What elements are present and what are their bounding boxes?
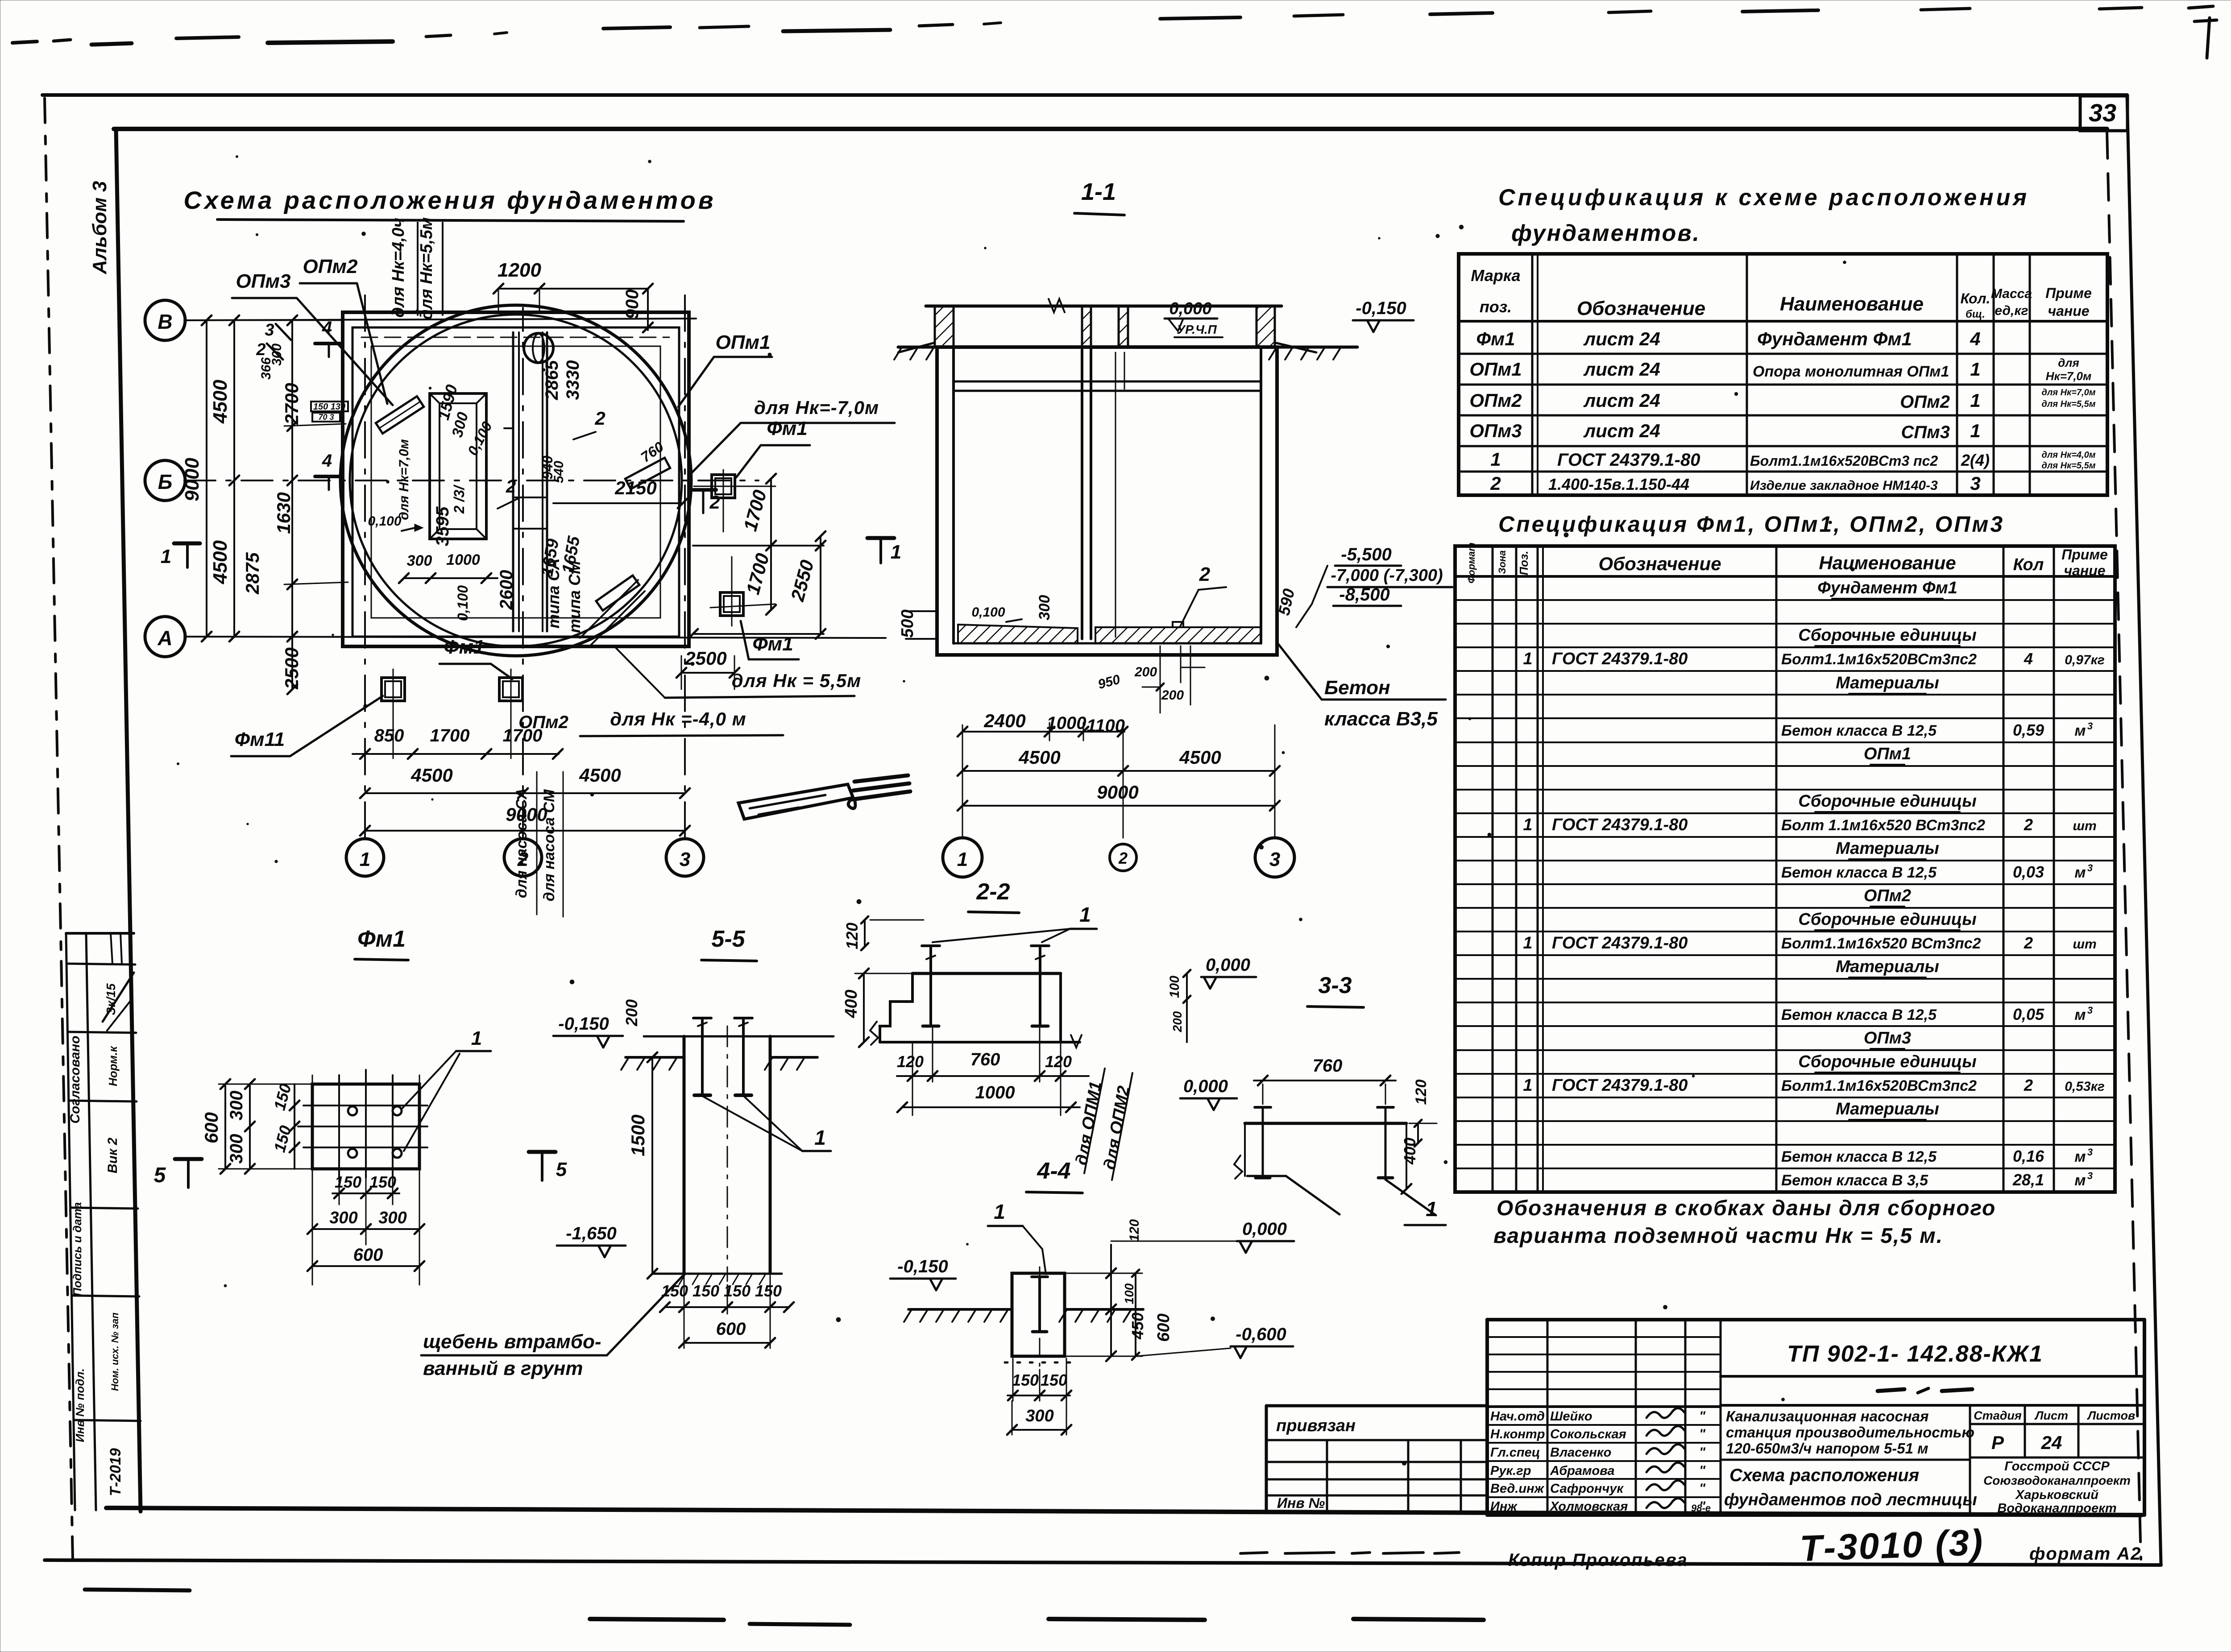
svg-text:Инж: Инж — [1490, 1499, 1518, 1514]
svg-text:ОПм3: ОПм3 — [1469, 420, 1522, 441]
svg-text:Б: Б — [158, 470, 173, 493]
svg-text:щебень втрамбо-: щебень втрамбо- — [423, 1331, 601, 1353]
svg-text:2875: 2875 — [242, 552, 263, 595]
section 1-1 axis bubble 1 — [943, 838, 982, 877]
svg-text:ГОСТ 24379.1-80: ГОСТ 24379.1-80 — [1552, 934, 1688, 952]
svg-text:для Нк =-4,0 м: для Нк =-4,0 м — [610, 708, 746, 729]
spec table 2 row grid lines — [1455, 599, 2115, 601]
svg-text:4: 4 — [322, 318, 332, 338]
section 1-1 sump notch — [1173, 622, 1183, 627]
svg-text:ОПм1: ОПм1 — [1469, 359, 1522, 380]
plan tank outer circle — [340, 305, 691, 656]
svg-text:А: А — [157, 626, 172, 650]
svg-text:": " — [1699, 1445, 1706, 1460]
detail 2-2 right edge — [1059, 973, 1062, 1042]
svg-text:типа СА: типа СА — [544, 558, 563, 628]
detail 4-4 bottom dims 150/150 — [1008, 1395, 1070, 1396]
spec table 1 vertical lines — [1531, 254, 1534, 495]
svg-text:-0,150: -0,150 — [1356, 298, 1406, 318]
top right corner tick mark — [2207, 18, 2210, 58]
section 1-1 wall stub hatched left — [935, 306, 954, 347]
title block stage columns verticals — [1969, 1405, 1971, 1515]
svg-text:Фм1: Фм1 — [357, 926, 406, 952]
svg-text:300: 300 — [1025, 1407, 1053, 1425]
svg-text:станция производительностью: станция производительностью — [1726, 1424, 1974, 1441]
title block upper empty row lines — [1487, 1336, 1721, 1338]
svg-text:0,05: 0,05 — [2013, 1005, 2044, 1023]
axis line Б — [184, 480, 759, 481]
svg-text:типа СМ: типа СМ — [565, 560, 584, 633]
svg-text:0,100: 0,100 — [971, 605, 1005, 620]
svg-text:1000: 1000 — [446, 551, 480, 568]
svg-text:4500: 4500 — [1018, 747, 1060, 768]
svg-text:м: м — [2074, 864, 2086, 881]
sidebar column divider — [86, 933, 96, 1510]
svg-text:3: 3 — [680, 849, 690, 870]
svg-text:1: 1 — [161, 546, 171, 567]
title block outer left edge — [1485, 1320, 1489, 1515]
plan central opening inner rect — [440, 403, 477, 529]
svg-text:ОПм1: ОПм1 — [716, 331, 771, 353]
svg-text:3: 3 — [265, 321, 274, 340]
section 1-1 ground hatch left — [894, 348, 901, 360]
svg-text:УР.Ч.П: УР.Ч.П — [1177, 323, 1217, 336]
detail 5-5 bolt cross ticks — [698, 1023, 707, 1026]
right dim chain footings 1700/1700/2550 — [693, 545, 824, 547]
svg-text:120: 120 — [1127, 1219, 1142, 1242]
svg-text:400: 400 — [1401, 1138, 1419, 1165]
svg-text:0,000: 0,000 — [1206, 955, 1250, 975]
svg-text:Материалы: Материалы — [1836, 674, 1939, 692]
sheet outer border bottom — [45, 1560, 2161, 1565]
svg-text:ГОСТ 24379.1-80: ГОСТ 24379.1-80 — [1552, 816, 1688, 834]
sidebar top line — [66, 932, 134, 935]
svg-text:лист 24: лист 24 — [1583, 359, 1660, 380]
inner frame bottom — [106, 1508, 2142, 1515]
svg-text:ванный в грунт: ванный в грунт — [423, 1358, 583, 1379]
svg-text:2: 2 — [1118, 849, 1128, 867]
svg-text:5: 5 — [154, 1163, 166, 1187]
axis line В — [184, 319, 696, 320]
svg-text:бщ.: бщ. — [1966, 308, 1985, 320]
speckle dash row above bottom border — [1240, 1553, 1267, 1553]
svg-text:600: 600 — [716, 1319, 746, 1339]
svg-text:4: 4 — [1970, 328, 1980, 349]
svg-text:200: 200 — [1170, 1011, 1184, 1032]
detail 2-2 left break squiggle — [870, 1022, 878, 1045]
svg-text:для Нк=5,5м: для Нк=5,5м — [2042, 399, 2096, 409]
svg-text:9000: 9000 — [506, 804, 547, 825]
svg-text:33: 33 — [2089, 99, 2116, 127]
svg-text:3: 3 — [2087, 720, 2093, 732]
svg-text:24: 24 — [2041, 1432, 2062, 1453]
svg-text:100: 100 — [1167, 976, 1182, 998]
svg-text:Фундамент Фм1: Фундамент Фм1 — [1757, 328, 1912, 349]
svg-text:Спецификация Фм1, ОПм1, ОПм2,: Спецификация Фм1, ОПм1, ОПм2, ОПм3 — [1498, 512, 2004, 537]
svg-text:4-4: 4-4 — [1037, 1158, 1070, 1184]
inner frame top — [114, 127, 2107, 131]
detail 4-4 ground line right with hatch — [1065, 1308, 1143, 1311]
right dim bottom line — [693, 633, 824, 635]
svg-text:2865: 2865 — [542, 360, 562, 401]
section 1-1 floor hatched left chamber — [958, 625, 1078, 643]
plan interior top dashed band — [361, 337, 669, 338]
svg-text:1: 1 — [1970, 390, 1980, 411]
svg-text:для Нк=4,0м: для Нк=4,0м — [2042, 450, 2096, 460]
svg-text:": " — [1699, 1427, 1706, 1441]
svg-text:1: 1 — [1490, 449, 1501, 470]
spec table 2 outer box — [1455, 546, 2115, 1192]
svg-text:-0,150: -0,150 — [897, 1257, 948, 1276]
svg-text:В: В — [158, 310, 172, 333]
svg-text:Сборочные единицы: Сборочные единицы — [1798, 910, 1976, 929]
detail Фм1 left dim 600 — [224, 1084, 226, 1169]
detail Фм1 anchor bolt circles — [348, 1106, 357, 1115]
svg-text:0,59: 0,59 — [2013, 721, 2044, 739]
detail Фм1 extension lines — [312, 1075, 313, 1285]
section 1-1 extension verticals to bubbles — [962, 725, 963, 838]
svg-text:Альбом 3: Альбом 3 — [89, 181, 111, 275]
svg-text:Вед.инж: Вед.инж — [1490, 1482, 1545, 1496]
svg-text:0,97кг: 0,97кг — [2065, 653, 2105, 667]
spec table 1 outer box — [1459, 254, 2107, 495]
plan central opening outer rect — [430, 393, 486, 539]
svg-text:3: 3 — [1269, 849, 1280, 870]
detail 3-3 top line — [1245, 1122, 1406, 1125]
detail Фм1 bottom dims 150/150 — [332, 1192, 399, 1194]
svg-text:СПм3: СПм3 — [1901, 422, 1950, 442]
svg-text:2600: 2600 — [497, 570, 516, 610]
svg-text:2150: 2150 — [614, 477, 656, 498]
svg-text:Фм1: Фм1 — [767, 418, 807, 439]
svg-text:600: 600 — [201, 1112, 222, 1143]
svg-text:Т-2019: Т-2019 — [107, 1448, 124, 1496]
svg-text:Инв №: Инв № — [1277, 1495, 1325, 1511]
svg-text:150: 150 — [335, 1173, 361, 1191]
svg-text:Болт1.1м16х520ВСт3 пс2: Болт1.1м16х520ВСт3 пс2 — [1750, 453, 1938, 469]
svg-text:3: 3 — [2087, 1170, 2093, 1181]
svg-text:120-650м3/ч напором 5-51 м: 120-650м3/ч напором 5-51 м — [1726, 1440, 1928, 1457]
detail Фм1 left dims 150/150 — [294, 1084, 295, 1169]
svg-text:Харьковский: Харьковский — [2015, 1488, 2098, 1502]
privyazan block verticals — [1326, 1440, 1328, 1511]
svg-text:0,000: 0,000 — [1242, 1219, 1287, 1239]
svg-text:Союзводоканалпроект: Союзводоканалпроект — [1983, 1474, 2131, 1487]
axis bubble Б — [145, 460, 185, 501]
svg-text:": " — [1699, 1463, 1706, 1478]
svg-text:4500: 4500 — [209, 540, 231, 584]
svg-text:300: 300 — [227, 1134, 246, 1164]
section 1-1 middle wall — [1081, 347, 1083, 639]
svg-text:ОПм1: ОПм1 — [1864, 745, 1911, 763]
detail 5-5 pedestal column — [683, 1036, 686, 1274]
scan speckles — [768, 353, 771, 356]
title block second divider — [1721, 1404, 2144, 1407]
svg-text:Бетон класса В 3,5: Бетон класса В 3,5 — [1781, 1172, 1928, 1189]
svg-text:ед,кг: ед,кг — [1995, 303, 2028, 318]
page number box — [2080, 96, 2127, 131]
svg-text:Обозначения в скобках даны д: Обозначения в скобках даны для сборного — [1497, 1197, 1996, 1220]
detail Фм1 internal grid verticals — [338, 1075, 340, 1178]
svg-text:450: 450 — [1128, 1312, 1147, 1340]
svg-text:1-1: 1-1 — [1081, 178, 1116, 205]
section 1-1 ground hatch right — [1269, 348, 1276, 360]
svg-text:привязан: привязан — [1276, 1416, 1356, 1435]
svg-text:200: 200 — [1134, 665, 1157, 679]
svg-text:Фм1: Фм1 — [444, 636, 484, 658]
axis line 1 (vertical) — [364, 294, 366, 838]
svg-text:1000: 1000 — [975, 1083, 1015, 1102]
plan pump shaft vertical lines — [512, 332, 514, 631]
svg-text:для Нк=-7,0м: для Нк=-7,0м — [754, 397, 879, 418]
section 1-1 dim chain 9000 — [962, 805, 1275, 807]
detail Фм1 internal grid horizontals — [303, 1105, 427, 1106]
svg-text:0,53кг: 0,53кг — [2065, 1079, 2105, 1094]
svg-text:-0,600: -0,600 — [1236, 1325, 1286, 1344]
svg-text:120: 120 — [1413, 1080, 1430, 1105]
section 1-1 intermediate slab lines — [954, 381, 1261, 383]
svg-text:ТП 902-1- 142.88-КЖ1: ТП 902-1- 142.88-КЖ1 — [1787, 1341, 2043, 1367]
svg-text:Т-3010 (3): Т-3010 (3) — [1799, 1522, 1985, 1569]
section 1-1 wall stub hatched mid-right — [1119, 306, 1128, 347]
footing Фм1 right lower (plan) — [720, 592, 743, 616]
svg-text:1: 1 — [1523, 1076, 1532, 1095]
svg-text:4: 4 — [322, 451, 332, 471]
section 1-1 floor hatched right chamber — [1095, 627, 1261, 643]
detail 2-2 bolt cross ticks — [926, 956, 935, 959]
svg-text:400: 400 — [842, 990, 861, 1018]
plan slanted block leader lines lower-right — [580, 580, 638, 638]
svg-text:1: 1 — [1426, 1197, 1437, 1221]
detail 5-5 dim 1500 rotated — [651, 1057, 653, 1274]
section 1-1 dim chain 2400/1000/1100 — [962, 731, 1124, 733]
section 1-1 top slab break mark — [1049, 299, 1065, 312]
section 1-1 thin pipe verticals — [1115, 352, 1116, 637]
svg-text:ОПм2: ОПм2 — [1900, 392, 1950, 412]
axis line А — [184, 637, 886, 638]
detail 5-5 pedestal center dash line — [727, 1026, 728, 1281]
svg-text:2: 2 — [594, 408, 605, 429]
title block small grid verticals — [1547, 1320, 1549, 1515]
left dim chain 4500+4500 — [233, 320, 235, 637]
svg-text:Приме: Приме — [2061, 547, 2108, 563]
svg-text:1: 1 — [1079, 903, 1091, 926]
svg-text:150: 150 — [369, 1173, 396, 1191]
svg-text:Лист: Лист — [2034, 1409, 2068, 1422]
svg-text:Ном. исх. № зап: Ном. исх. № зап — [109, 1312, 120, 1391]
svg-text:300: 300 — [227, 1091, 246, 1121]
svg-text:лист 24: лист 24 — [1583, 390, 1660, 411]
svg-text:м: м — [2074, 1006, 2086, 1023]
svg-text:для Нк=5,5м: для Нк=5,5м — [2042, 461, 2096, 471]
svg-text:Марка: Марка — [1471, 266, 1520, 285]
svg-text:1000: 1000 — [1047, 713, 1086, 733]
svg-text:фундаментов.: фундаментов. — [1511, 220, 1700, 246]
detail 5-5 bottom dims 150x4 — [665, 1306, 789, 1308]
section mark 2 right of plan — [691, 488, 716, 492]
svg-text:2: 2 — [2024, 816, 2033, 834]
svg-text:для Нк = 5,5м: для Нк = 5,5м — [732, 670, 861, 691]
svg-text:3: 3 — [2087, 1005, 2093, 1016]
svg-text:": " — [1699, 1481, 1706, 1496]
svg-text:120: 120 — [843, 923, 861, 949]
section 1-1 axis bubble 2 — [1110, 844, 1136, 871]
svg-text:Сафрончук: Сафрончук — [1550, 1482, 1624, 1496]
svg-text:3: 3 — [2087, 1147, 2093, 1158]
footing Фм1 right lower center lines — [731, 557, 733, 626]
sidebar row lines — [67, 964, 135, 965]
svg-text:1.400-15в.1.150-44: 1.400-15в.1.150-44 — [1548, 475, 1689, 493]
detail 3-3 left edge and break — [1244, 1123, 1246, 1176]
detail Фм1 bottom dim 600 — [312, 1265, 419, 1267]
svg-text:0,16: 0,16 — [2013, 1147, 2044, 1165]
svg-text:Сборочные единицы: Сборочные единицы — [1798, 1052, 1976, 1071]
detail 4-4 ground line left with hatch — [908, 1308, 1012, 1311]
svg-text:Вик 2: Вик 2 — [105, 1138, 120, 1174]
section 1-1 level bracket lines — [1312, 566, 1327, 604]
bottom extension lines — [393, 709, 394, 758]
bottom dim chain 4500+4500 — [365, 792, 685, 794]
svg-text:Холмовская: Холмовская — [1549, 1499, 1628, 1514]
svg-text:ГОСТ 24379.1-80: ГОСТ 24379.1-80 — [1552, 1076, 1688, 1095]
svg-text:0,03: 0,03 — [2013, 863, 2044, 881]
svg-text:3-3: 3-3 — [1318, 973, 1352, 998]
svg-text:Р: Р — [1991, 1432, 2004, 1453]
footing bottom center lines — [393, 669, 394, 709]
section 1-1 ground line — [898, 346, 1357, 349]
plan slanted anchor block lower-right — [596, 576, 639, 611]
svg-text:ОПм3: ОПм3 — [1864, 1029, 1911, 1048]
svg-text:Болт1.1м16х520ВСт3пс2: Болт1.1м16х520ВСт3пс2 — [1781, 1077, 1977, 1094]
detail 5-5 ground line left — [626, 1056, 684, 1059]
svg-text:1700: 1700 — [430, 726, 470, 745]
svg-text:2: 2 — [256, 340, 265, 359]
svg-text:поз.: поз. — [1480, 298, 1512, 316]
detail 4-4 right dim chain — [1110, 1245, 1112, 1356]
section 1-1 level -0,150 arrow — [1367, 320, 1373, 332]
svg-text:Канализационная насосная: Канализационная насосная — [1726, 1408, 1929, 1424]
svg-text:0,100: 0,100 — [455, 585, 471, 621]
svg-text:Обозначение: Обозначение — [1598, 553, 1721, 574]
svg-text:ГОСТ 24379.1-80: ГОСТ 24379.1-80 — [1557, 450, 1700, 470]
dim line extension to 900 — [539, 288, 648, 290]
svg-text:класса В3,5: класса В3,5 — [1324, 708, 1438, 730]
svg-text:1100: 1100 — [1086, 716, 1125, 736]
detail Фм1 footing square — [312, 1084, 419, 1169]
svg-text:Зона: Зона — [1497, 550, 1508, 574]
svg-text:2: 2 — [1199, 563, 1211, 585]
svg-text:ОПм2: ОПм2 — [303, 256, 358, 277]
sheet inner dashed right companion line — [2107, 132, 2141, 1559]
svg-text:2: 2 — [506, 477, 516, 497]
detail 2-2 bottom dim 1000 — [902, 1106, 1080, 1108]
axis bubble 2 — [504, 839, 542, 876]
section 1-1 dim chain 4500+4500 — [962, 770, 1275, 772]
section 1-1 bottom inner line — [954, 642, 1261, 645]
plan small hatch circle lens — [533, 334, 544, 362]
svg-text:Копир Прокопьева: Копир Прокопьева — [1508, 1550, 1688, 1570]
svg-text:540: 540 — [552, 461, 566, 483]
svg-text:чание: чание — [2048, 303, 2089, 319]
stamp Т-3010 (3) — [1799, 1522, 1985, 1569]
svg-text:для Нк=7,0м: для Нк=7,0м — [397, 439, 411, 520]
svg-text:2500: 2500 — [684, 648, 726, 669]
svg-text:Наименование: Наименование — [1819, 552, 1956, 573]
section 1-1 axis bubble 3 — [1255, 838, 1294, 877]
svg-text:-7,000 (-7,300): -7,000 (-7,300) — [1331, 566, 1443, 585]
sheet outer border top — [42, 93, 2127, 97]
title block staff row lines — [1487, 1424, 1721, 1426]
plan small hatch circle — [524, 333, 553, 363]
detail Фм1 section mark 5 left — [175, 1157, 202, 1161]
svg-text:Спецификация к схеме распо: Спецификация к схеме расположения — [1498, 185, 2029, 211]
svg-text:0,000: 0,000 — [1183, 1076, 1228, 1096]
svg-text:2(4): 2(4) — [1961, 451, 1990, 469]
svg-text:5-5: 5-5 — [711, 926, 745, 952]
svg-text:Подпись и дата: Подпись и дата — [70, 1202, 84, 1296]
svg-text:1200: 1200 — [498, 259, 541, 281]
svg-text:лист 24: лист 24 — [1583, 328, 1660, 349]
svg-text:1: 1 — [994, 1200, 1005, 1223]
svg-text:Бетон класса В 12,5: Бетон класса В 12,5 — [1781, 722, 1937, 739]
svg-text:Масса: Масса — [1991, 286, 2032, 301]
svg-text:ГОСТ 24379.1-80: ГОСТ 24379.1-80 — [1552, 650, 1688, 668]
svg-text:Изделие закладное НМ140-3: Изделие закладное НМ140-3 — [1750, 478, 1938, 493]
svg-text:-1,650: -1,650 — [566, 1224, 616, 1243]
detail 5-5 bottom dim 600 — [684, 1342, 770, 1344]
svg-text:Схема расположения фундаментов: Схема расположения фундаментов — [183, 186, 716, 214]
svg-text:1: 1 — [1970, 359, 1980, 380]
svg-text:9000: 9000 — [181, 458, 203, 501]
spec table 1 row lines — [1459, 353, 2107, 355]
detail 2-2 bottom line with breaks — [880, 1041, 1080, 1043]
plan interior dash-dot wall axis rectangle — [371, 346, 660, 618]
svg-text:": " — [1699, 1409, 1706, 1424]
detail 5-5 bottom ground hatch — [679, 1275, 685, 1284]
svg-text:1: 1 — [957, 849, 968, 870]
footing Фм1 right upper center lines — [723, 470, 724, 532]
footing Фм1 right upper (plan) — [712, 475, 735, 498]
section 1-1 top slab line — [926, 305, 1281, 308]
svg-text:2: 2 — [2024, 934, 2033, 952]
svg-text:ОПм2: ОПм2 — [1864, 886, 1911, 905]
sheet outer border right — [2127, 95, 2161, 1564]
svg-text:Шейко: Шейко — [1550, 1409, 1592, 1424]
svg-text:для Нк=4,0ч: для Нк=4,0ч — [389, 218, 408, 318]
svg-text:фундаментов под лестницы: фундаментов под лестницы — [1724, 1491, 1977, 1509]
title block stage values separator — [1970, 1457, 2144, 1459]
svg-text:300: 300 — [329, 1209, 357, 1227]
svg-text:Госстрой СССР: Госстрой СССР — [2004, 1459, 2110, 1474]
svg-text:Гл.спец: Гл.спец — [1490, 1445, 1540, 1460]
detail Фм1 section mark 5 right — [529, 1150, 556, 1154]
svg-text:98-е: 98-е — [1691, 1503, 1711, 1514]
axis bubble 1 — [346, 839, 384, 876]
svg-text:шт: шт — [2073, 937, 2096, 952]
svg-text:4500: 4500 — [579, 765, 621, 786]
svg-text:150: 150 — [755, 1282, 782, 1300]
axis bubble 3 — [666, 839, 704, 876]
svg-text:1: 1 — [814, 1126, 826, 1149]
svg-text:Фм1: Фм1 — [1476, 328, 1515, 349]
svg-text:Инв № подл.: Инв № подл. — [73, 1368, 87, 1442]
detail 2-2 top surface — [912, 972, 1061, 975]
section 1-1 leader 2 to embedded item — [1180, 590, 1198, 626]
svg-text:3: 3 — [1970, 473, 1980, 494]
detail 3-3 bottom diagonals with leader 1 — [1247, 1175, 1286, 1177]
footing Фм1 bottom left (plan) — [382, 678, 405, 701]
svg-text:4500: 4500 — [209, 380, 231, 424]
